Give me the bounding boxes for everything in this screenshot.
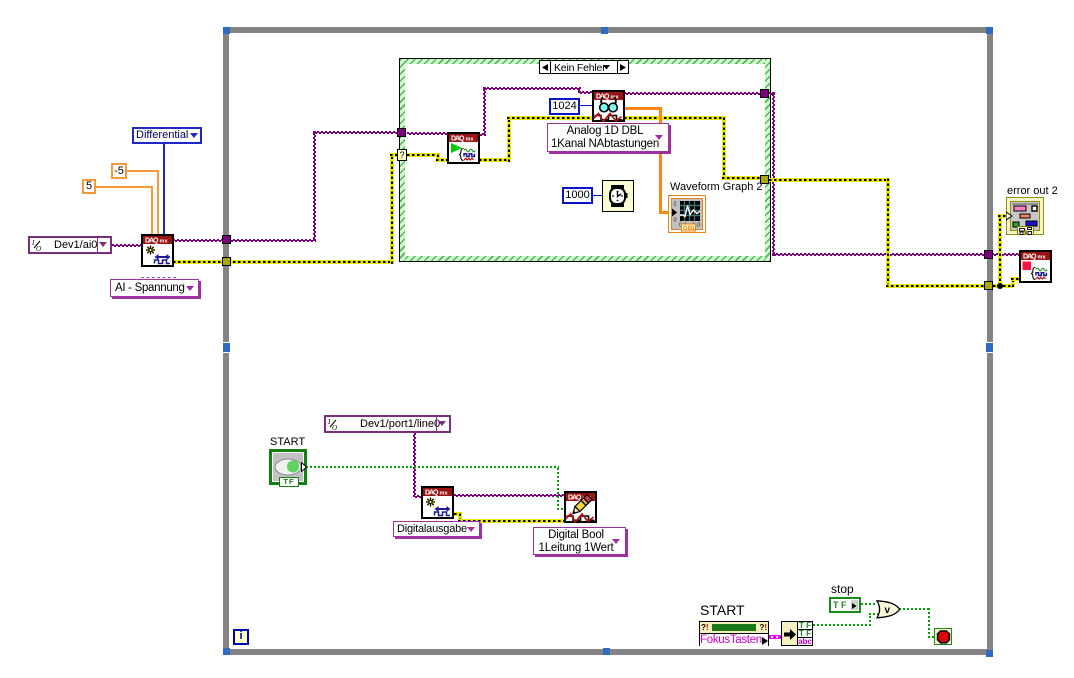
svg-text:I: I [32, 239, 35, 247]
svg-text:O: O [332, 424, 337, 430]
svg-text:DBL: DBL [683, 225, 696, 232]
svg-text:0: 0 [674, 218, 677, 224]
svg-text:mx: mx [160, 239, 169, 245]
svg-text:DAQ: DAQ [145, 238, 159, 245]
svg-text:DAQ: DAQ [425, 490, 439, 497]
svg-text:DAQ: DAQ [451, 136, 465, 143]
svg-text:DAQ: DAQ [568, 495, 582, 502]
svg-text:DAQ: DAQ [1023, 254, 1037, 261]
svg-text:O: O [36, 245, 41, 251]
svg-text:mx: mx [440, 491, 449, 497]
svg-text:DAQ: DAQ [596, 94, 610, 101]
svg-text:2: 2 [674, 202, 677, 208]
svg-text:v: v [885, 605, 891, 616]
svg-text:mx: mx [466, 137, 475, 143]
svg-text:mx: mx [1038, 255, 1047, 261]
svg-text:I: I [328, 418, 331, 426]
